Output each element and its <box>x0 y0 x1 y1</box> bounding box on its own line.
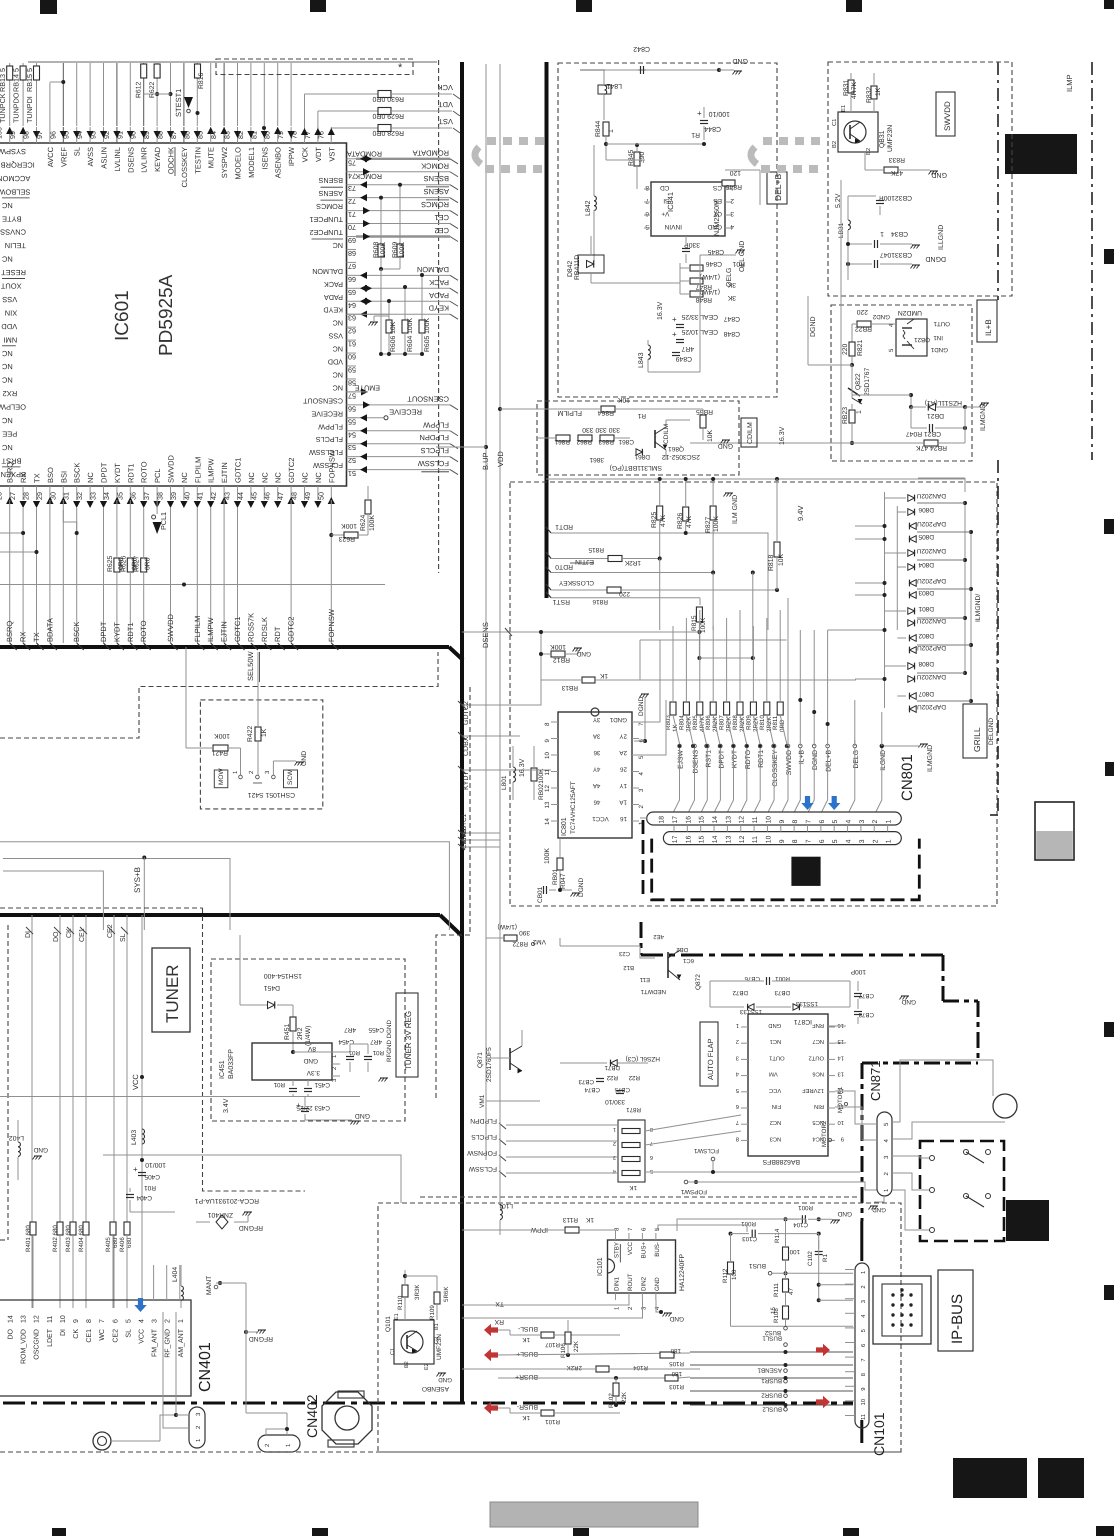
svg-text:LDET: LDET <box>47 1328 54 1347</box>
svg-text:TUNER 3V REG: TUNER 3V REG <box>404 1011 413 1070</box>
svg-text:BA033FP: BA033FP <box>228 1049 235 1079</box>
svg-text:KYDT: KYDT <box>732 750 739 768</box>
dashed option box at top <box>216 59 413 130</box>
svg-text:13: 13 <box>725 816 732 824</box>
ground ILMGND at IL+B <box>965 403 989 431</box>
svg-text:Q822: Q822 <box>855 373 862 390</box>
svg-text:RECEIVE: RECEIVE <box>389 407 422 416</box>
svg-text:CB34: CB34 <box>891 230 908 237</box>
svg-text:D808: D808 <box>918 660 934 667</box>
svg-text:NC7: NC7 <box>812 1038 824 1045</box>
svg-text:2: 2 <box>736 1038 739 1045</box>
svg-text:R110: R110 <box>397 1295 404 1310</box>
svg-text:D807: D807 <box>918 690 934 697</box>
svg-text:NC1: NC1 <box>770 1038 782 1045</box>
svg-text:69: 69 <box>348 236 356 245</box>
svg-text:DGND: DGND <box>925 255 946 262</box>
svg-text:3: 3 <box>730 210 734 217</box>
svg-text:ASLIN: ASLIN <box>100 147 109 169</box>
svg-text:100K: 100K <box>713 516 720 532</box>
svg-text:R612: R612 <box>136 82 143 98</box>
svg-text:NC: NC <box>333 383 343 392</box>
svg-text:SL: SL <box>73 147 82 156</box>
svg-text:C102: C102 <box>807 1251 814 1266</box>
transistor Q101 UMF23N <box>385 1313 443 1370</box>
CN801 feed labels EJSW..ILGND with terminals <box>674 744 887 812</box>
svg-text:STBY: STBY <box>614 1242 621 1258</box>
svg-text:RST1: RST1 <box>552 598 570 605</box>
svg-text:1: 1 <box>613 1126 616 1132</box>
connector CN401 body <box>0 1300 214 1396</box>
diodes D872 D873 1SS133 <box>710 989 850 1015</box>
svg-text:63: 63 <box>348 314 356 323</box>
svg-text:R107: R107 <box>545 1341 560 1348</box>
svg-text:6: 6 <box>645 210 649 217</box>
svg-text:TX: TX <box>495 1300 504 1307</box>
svg-text:NC: NC <box>1 362 12 371</box>
svg-text:R821: R821 <box>857 340 864 356</box>
svg-text:DSENS: DSENS <box>126 147 135 173</box>
section box CDILM <box>537 401 757 475</box>
svg-text:12: 12 <box>34 1315 41 1323</box>
svg-text:180: 180 <box>670 1347 681 1354</box>
svg-text:36: 36 <box>593 749 600 756</box>
svg-text:14: 14 <box>712 816 719 824</box>
svg-text:1K: 1K <box>522 1336 530 1343</box>
svg-text:HA12240FP: HA12240FP <box>679 1254 686 1291</box>
svg-text:SWVDD: SWVDD <box>167 455 176 484</box>
svg-text:33: 33 <box>89 492 98 500</box>
connector 2-pin plug <box>246 1413 300 1452</box>
svg-text:66: 66 <box>348 275 356 284</box>
section label AUTO FLAP <box>700 1022 718 1086</box>
svg-text:8: 8 <box>736 1135 739 1142</box>
svg-text:52: 52 <box>348 456 356 465</box>
svg-text:R103: R103 <box>669 1383 684 1390</box>
svg-text:ISENS: ISENS <box>260 147 269 170</box>
svg-text:TUNPCE2: TUNPCE2 <box>309 228 343 237</box>
svg-text:CN871: CN871 <box>868 1061 883 1101</box>
svg-text:GND: GND <box>355 1112 370 1119</box>
svg-text:VCK: VCK <box>301 147 310 162</box>
svg-text:86: 86 <box>182 131 191 139</box>
svg-text:DGND: DGND <box>578 878 585 897</box>
svg-text:11: 11 <box>752 836 759 843</box>
svg-text:DSENS: DSENS <box>481 622 490 648</box>
svg-text:TX: TX <box>33 473 42 483</box>
svg-text:220: 220 <box>842 343 849 355</box>
svg-text:L843: L843 <box>638 352 645 368</box>
svg-text:BSRQ: BSRQ <box>5 621 14 642</box>
svg-text:XOUT: XOUT <box>0 282 21 291</box>
svg-text:TUNPCE1: TUNPCE1 <box>309 215 343 224</box>
svg-text:LVLINL: LVLINL <box>113 147 122 171</box>
svg-text:1: 1 <box>886 820 893 824</box>
svg-text:ROMDATA: ROMDATA <box>413 148 449 157</box>
svg-text:DPDT: DPDT <box>718 750 725 769</box>
svg-text:ASENBO: ASENBO <box>422 1385 449 1392</box>
svg-text:AM_ANT: AM_ANT <box>178 1328 185 1357</box>
svg-text:ACCMON: ACCMON <box>0 174 30 183</box>
resistor R801 R047 divider with DGND <box>537 838 585 903</box>
transistor Q872 <box>560 933 702 995</box>
svg-text:82: 82 <box>236 131 245 139</box>
svg-text:46: 46 <box>593 799 600 806</box>
test point PCL1 below pin 37 <box>152 500 169 534</box>
section box TUNER 3V REG <box>211 959 418 1121</box>
svg-text:R806: R806 <box>705 715 712 730</box>
svg-text:16: 16 <box>685 816 692 824</box>
diode D451 1SH154-400 <box>240 935 302 1017</box>
svg-text:85: 85 <box>196 131 205 139</box>
resistor R813 1K <box>541 672 856 691</box>
svg-text:SWVDD: SWVDD <box>166 614 175 643</box>
svg-text:ILGND: ILGND <box>880 750 887 771</box>
svg-text:C847: C847 <box>724 315 740 322</box>
svg-text:D805: D805 <box>918 533 934 540</box>
svg-text:1: 1 <box>886 839 893 843</box>
svg-text:CDTX: CDTX <box>461 832 468 849</box>
svg-text:10: 10 <box>860 1399 867 1405</box>
svg-text:ASENBO: ASENBO <box>274 147 283 178</box>
svg-text:B.UP: B.UP <box>481 452 490 470</box>
svg-text:IC801: IC801 <box>561 817 568 836</box>
svg-text:9: 9 <box>841 1135 844 1142</box>
svg-text:15: 15 <box>770 1307 777 1314</box>
svg-text:MOTOR1: MOTOR1 <box>837 1086 844 1113</box>
svg-text:IN1: IN1 <box>933 334 943 341</box>
svg-text:10K: 10K <box>617 396 630 403</box>
capacitor C844 100/10 <box>691 107 730 140</box>
svg-text:3A: 3A <box>592 733 600 740</box>
svg-text:VM1: VM1 <box>479 1094 486 1108</box>
inductor L101 <box>486 1063 513 1235</box>
svg-text:C2: C2 <box>434 1337 440 1344</box>
svg-text:GND: GND <box>901 998 916 1005</box>
svg-text:32: 32 <box>75 492 84 500</box>
svg-text:R805: R805 <box>692 715 699 730</box>
resistors R401-R406 680 ladder <box>25 1146 133 1308</box>
svg-text:GND: GND <box>301 751 308 766</box>
svg-text:(1/4W): (1/4W) <box>700 273 720 280</box>
labels FCLSW1 FOPSW1 <box>680 1147 877 1195</box>
svg-text:UMD2N: UMD2N <box>898 309 922 316</box>
svg-text:SCW: SCW <box>287 769 294 785</box>
svg-text:18: 18 <box>659 816 666 824</box>
svg-text:RB13 5: RB13 5 <box>0 68 7 92</box>
red arrow BUSL- and resistor R107 1K <box>484 1324 620 1348</box>
svg-text:C404: C404 <box>136 1194 152 1201</box>
IC601 right pin comb, pins 75-51 <box>302 148 458 478</box>
svg-text:R401 680: R401 680 <box>25 1225 32 1252</box>
svg-text:14: 14 <box>8 1315 15 1323</box>
svg-text:3: 3 <box>859 839 866 843</box>
svg-text:100: 100 <box>789 1248 800 1255</box>
svg-text:ROTO: ROTO <box>139 620 148 642</box>
svg-text:CSENSOUT: CSENSOUT <box>407 394 449 403</box>
door switch contacts <box>892 1150 991 1233</box>
label CN801 <box>899 754 916 801</box>
svg-text:B2: B2 <box>831 141 838 148</box>
wires: three L-bends to tuner bus <box>0 842 449 930</box>
resistors R606 10K / R604 100K / R605 100K with GND at IC601 right <box>347 273 432 356</box>
svg-text:RDT1: RDT1 <box>126 463 135 483</box>
svg-text:8V: 8V <box>307 1045 316 1052</box>
svg-text:CB01: CB01 <box>537 886 544 903</box>
wires: IC601 bottom pin columns down to bus <box>10 500 332 643</box>
svg-text:DAN202U: DAN202U <box>916 673 946 680</box>
zener DB71 HZS6L(C3) <box>560 1055 660 1071</box>
svg-text:91: 91 <box>115 131 124 139</box>
svg-text:14: 14 <box>712 835 719 843</box>
svg-text:D842: D842 <box>567 261 574 277</box>
svg-text:R807: R807 <box>719 715 726 730</box>
svg-text:FCLSSW: FCLSSW <box>313 461 343 470</box>
svg-text:RB02100K: RB02100K <box>538 768 545 800</box>
svg-text:PEE: PEE <box>2 429 17 438</box>
switch S421 CSH1051 dashed box <box>200 700 322 809</box>
svg-text:39: 39 <box>169 492 178 500</box>
svg-text:SYSPW: SYSPW <box>0 147 26 156</box>
svg-text:40: 40 <box>182 492 191 500</box>
svg-text:ROMCK: ROMCK <box>355 172 382 181</box>
svg-text:54: 54 <box>348 430 356 439</box>
svg-text:RB14 5: RB14 5 <box>12 68 21 92</box>
svg-text:R623: R623 <box>339 535 355 542</box>
svg-text:17: 17 <box>672 835 679 843</box>
svg-text:R451: R451 <box>284 1024 291 1040</box>
svg-text:L842: L842 <box>585 200 592 216</box>
svg-text:R22: R22 <box>606 1074 618 1081</box>
svg-text:6C1: 6C1 <box>682 957 694 964</box>
resistor R845 390 <box>606 142 706 189</box>
svg-text:OUT1: OUT1 <box>769 1054 784 1061</box>
wire DGND vertical into IL+B <box>808 180 841 460</box>
svg-text:6: 6 <box>819 839 826 843</box>
resistors R861 R862 R863 330 with diode D861 <box>537 426 650 460</box>
svg-text:UMF23N: UMF23N <box>887 125 894 152</box>
svg-text:GND: GND <box>707 223 722 230</box>
svg-text:C861: C861 <box>618 438 634 445</box>
svg-text:R01: R01 <box>273 1081 285 1088</box>
svg-text:VCC: VCC <box>139 1329 146 1344</box>
inductor L841 <box>598 70 622 120</box>
svg-text:R1: R1 <box>637 412 646 419</box>
svg-text:(1/4W): (1/4W) <box>700 288 720 295</box>
svg-text:MODEL1: MODEL1 <box>247 147 256 178</box>
svg-text:CDILM: CDILM <box>663 424 670 444</box>
wires: GRILL box internal routing <box>520 610 787 755</box>
svg-text:55: 55 <box>348 417 356 426</box>
svg-text:100: 100 <box>731 1269 738 1280</box>
svg-text:ILMPW: ILMPW <box>206 616 215 642</box>
svg-text:R862: R862 <box>576 438 592 445</box>
svg-text:EJTIN: EJTIN <box>220 462 229 483</box>
svg-text:53: 53 <box>348 443 356 452</box>
svg-text:R845: R845 <box>628 150 635 166</box>
svg-text:CE1: CE1 <box>79 928 86 942</box>
svg-text:7: 7 <box>805 820 812 824</box>
svg-text:7: 7 <box>645 197 649 204</box>
svg-text:RFGND: RFGND <box>239 1224 263 1231</box>
svg-text:2: 2 <box>872 839 879 843</box>
svg-text:NC: NC <box>314 472 323 483</box>
inductor L403 <box>131 1129 145 1145</box>
resistor R823 1 <box>842 404 863 445</box>
svg-text:8: 8 <box>645 184 649 191</box>
svg-text:B1: B1 <box>434 1323 440 1330</box>
svg-text:ES: ES <box>713 197 722 204</box>
svg-text:R825: R825 <box>651 512 658 528</box>
svg-text:IPPW: IPPW <box>287 146 296 166</box>
svg-text:ILLGND: ILLGND <box>938 225 945 250</box>
resistor R821 220 <box>842 340 864 367</box>
svg-text:R832: R832 <box>866 87 873 103</box>
resistor R815 100K <box>691 607 755 660</box>
svg-text:RNF: RNF <box>812 1022 824 1028</box>
svg-text:1SS133: 1SS133 <box>795 1000 818 1007</box>
svg-text:NC: NC <box>1 416 12 425</box>
svg-text:1R2K: 1R2K <box>624 559 641 566</box>
svg-text:RF_GND: RF_GND <box>165 1329 172 1358</box>
svg-text:R421: R421 <box>212 749 228 756</box>
svg-text:R101: R101 <box>545 1418 560 1425</box>
transistor Q871 2SD1760 <box>477 1030 522 1082</box>
wire SYS rail y=1155 to CN501 area <box>103 1155 401 1203</box>
svg-text:R406: R406 <box>119 1237 126 1252</box>
svg-text:5: 5 <box>736 1087 739 1093</box>
svg-text:D861: D861 <box>634 453 650 460</box>
svg-text:BUS-: BUS- <box>654 1242 661 1257</box>
svg-text:NC: NC <box>274 472 283 483</box>
svg-text:PCL: PCL <box>153 468 162 483</box>
inductor L801 and resistor R802 100K <box>501 746 551 800</box>
svg-text:330 330 330: 330 330 330 <box>582 426 620 433</box>
svg-text:INVIN: INVIN <box>664 223 682 230</box>
connector CN401 pins 14-1 <box>8 1315 185 1364</box>
svg-text:ILM GND: ILM GND <box>732 495 739 524</box>
labels BUS2 BUSL1 ASENB1 BUSR1 BUSR2 BUSL2 at CN101 <box>690 1326 853 1412</box>
svg-text:R604 100K: R604 100K <box>407 318 414 352</box>
svg-text:R872: R872 <box>512 940 528 947</box>
svg-text:HZS6L (C3): HZS6L (C3) <box>626 1055 660 1062</box>
svg-text:LVLINR: LVLINR <box>140 146 149 172</box>
svg-text:BSCK: BSCK <box>72 622 81 642</box>
svg-text:44: 44 <box>236 492 245 500</box>
svg-text:10: 10 <box>544 752 551 759</box>
svg-text:FOPNSW: FOPNSW <box>467 1149 497 1156</box>
svg-text:75: 75 <box>348 158 356 167</box>
blue service arrow at CN801 pin 7 <box>801 796 813 810</box>
svg-text:RCCA-201931UA-P1: RCCA-201931UA-P1 <box>195 1197 259 1204</box>
svg-text:TC74VHC125AFT: TC74VHC125AFT <box>570 781 577 834</box>
resistor R812 100K with GND <box>539 630 591 680</box>
svg-text:L101: L101 <box>498 1202 513 1209</box>
svg-text:RB15 5: RB15 5 <box>25 68 34 92</box>
svg-text:4R7: 4R7 <box>370 1038 382 1045</box>
svg-text:29: 29 <box>35 492 44 500</box>
svg-text:13: 13 <box>21 1315 28 1323</box>
svg-text:L801: L801 <box>501 775 508 790</box>
svg-text:BSENS: BSENS <box>318 176 343 185</box>
svg-text:64: 64 <box>348 301 356 310</box>
svg-text:CE1: CE1 <box>86 1329 93 1343</box>
svg-text:ICERQRB: ICERQRB <box>1 160 35 169</box>
svg-text:QB31: QB31 <box>879 130 886 148</box>
svg-text:DEL+B: DEL+B <box>773 174 783 201</box>
svg-text:9: 9 <box>860 1388 867 1391</box>
svg-text:2Y: 2Y <box>619 733 627 740</box>
svg-text:L841: L841 <box>606 82 622 89</box>
svg-text:3.3V: 3.3V <box>306 1069 320 1076</box>
svg-text:R608: R608 <box>373 242 380 258</box>
svg-text:13: 13 <box>544 801 551 808</box>
svg-text:2R2K: 2R2K <box>566 1364 582 1371</box>
svg-text:1: 1 <box>608 129 615 133</box>
svg-text:GDTC2: GDTC2 <box>463 701 470 725</box>
IC801 TC74VHC125AFT buffer <box>544 708 645 838</box>
svg-text:DIN2: DIN2 <box>640 1276 647 1291</box>
svg-text:BSO: BSO <box>46 467 55 483</box>
svg-text:GND: GND <box>768 1022 781 1029</box>
svg-text:7: 7 <box>650 1140 653 1146</box>
svg-text:1SH154-400: 1SH154-400 <box>264 972 302 979</box>
svg-text:DIN1: DIN1 <box>614 1276 621 1291</box>
wire: heavy dashed box around door switches <box>920 1141 1004 1241</box>
svg-text:13: 13 <box>838 1071 844 1078</box>
svg-text:RB23: RB23 <box>842 407 849 424</box>
svg-text:BUSL2: BUSL2 <box>762 1405 782 1412</box>
svg-text:C453 22/25: C453 22/25 <box>296 1104 330 1111</box>
svg-text:BUSL1: BUSL1 <box>762 1335 782 1342</box>
wires: diode matrix feeders <box>519 503 971 1140</box>
transistor Q861 2SC3052 <box>589 420 733 471</box>
svg-text:R848: R848 <box>696 296 712 303</box>
svg-text:7: 7 <box>638 722 645 726</box>
svg-text:GDTC1: GDTC1 <box>233 617 242 642</box>
svg-text:NC: NC <box>1 349 12 358</box>
svg-text:26: 26 <box>620 766 627 773</box>
svg-text:KYDT: KYDT <box>113 463 122 483</box>
svg-text:SL: SL <box>120 933 127 942</box>
svg-text:VCC: VCC <box>769 1087 781 1094</box>
svg-text:36: 36 <box>129 492 138 500</box>
svg-text:8: 8 <box>650 1126 653 1132</box>
svg-text:AUTO FLAP: AUTO FLAP <box>706 1038 715 1080</box>
svg-text:CLOSSKEY: CLOSSKEY <box>558 579 594 586</box>
motor M symbol <box>892 1060 1017 1139</box>
svg-text:VDT: VDT <box>314 147 323 162</box>
svg-text:RB01: RB01 <box>552 868 559 885</box>
svg-text:NEDWT1: NEDWT1 <box>640 988 666 995</box>
inductor LB31 <box>838 220 850 262</box>
svg-text:ROTO: ROTO <box>140 461 149 483</box>
svg-text:PACK: PACK <box>429 278 449 287</box>
svg-text:+: + <box>672 315 677 324</box>
svg-text:VSS: VSS <box>2 295 17 304</box>
resistor R864 10K and FLPILM feed <box>546 396 646 419</box>
IC871 BA6288FS motor driver <box>735 1014 844 1165</box>
resistors R625 R626 R627 0R0 below IC601 <box>107 556 152 572</box>
svg-text:BUSL+: BUSL+ <box>516 1350 538 1357</box>
svg-text:10: 10 <box>765 835 772 843</box>
svg-text:12: 12 <box>739 835 746 843</box>
svg-text:100K: 100K <box>214 732 230 739</box>
svg-text:DI: DI <box>60 1329 67 1336</box>
inductor L843 and C849 4R7 <box>638 340 700 372</box>
svg-text:7: 7 <box>861 1358 867 1361</box>
svg-text:VDD: VDD <box>496 451 505 467</box>
